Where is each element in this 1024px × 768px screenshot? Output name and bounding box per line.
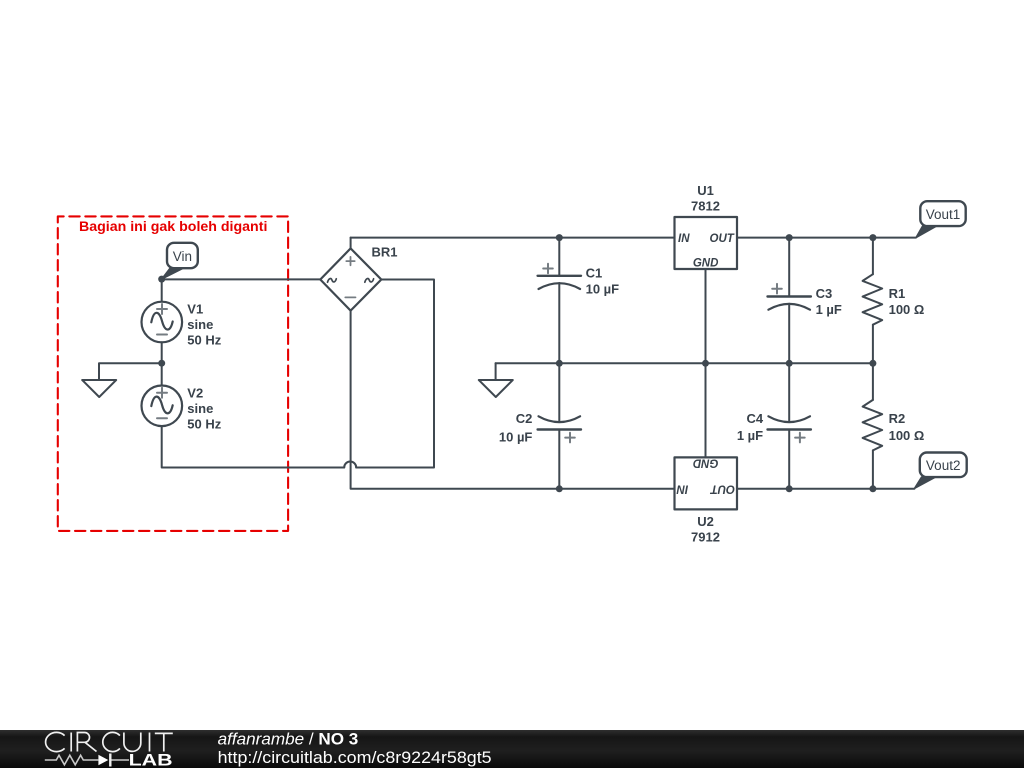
regulator U2 7912 bbox=[675, 457, 738, 510]
C2 labels bbox=[499, 411, 533, 444]
resistor R1 bbox=[863, 238, 883, 364]
svg-text:OUT: OUT bbox=[710, 233, 735, 245]
voltage source V2 bbox=[142, 386, 183, 427]
wire top rail left segment bbox=[351, 237, 675, 239]
wire U2 GND up to mid rail bbox=[705, 363, 707, 457]
svg-text:100 Ω: 100 Ω bbox=[889, 428, 925, 443]
capacitor C3 bbox=[768, 238, 811, 364]
R1 labels bbox=[889, 286, 925, 317]
R2 labels bbox=[889, 411, 925, 443]
node C1 bottom / mid rail bbox=[556, 360, 563, 367]
CircuitLab logo resistor-diode symbol bbox=[45, 754, 129, 767]
svg-text:50 Hz: 50 Hz bbox=[187, 416, 221, 431]
node Vin junction bbox=[158, 276, 165, 283]
svg-text:C4: C4 bbox=[746, 411, 763, 426]
regulator U1 7812 bbox=[675, 217, 738, 270]
svg-text:BR1: BR1 bbox=[372, 245, 398, 260]
wire V2 bottom to AC2 of BR1 (with hop) bbox=[162, 280, 434, 468]
node C2 bottom bbox=[556, 485, 563, 492]
net flag Vout2 bbox=[914, 453, 966, 489]
svg-text:Vin: Vin bbox=[173, 249, 192, 264]
C4 labels bbox=[737, 411, 764, 443]
svg-text:R2: R2 bbox=[889, 411, 906, 426]
node V1/V2 junction bbox=[158, 360, 165, 367]
svg-text:V1: V1 bbox=[187, 302, 203, 317]
voltage source V1 bbox=[142, 302, 183, 343]
svg-text:50 Hz: 50 Hz bbox=[187, 333, 221, 348]
svg-text:C1: C1 bbox=[586, 266, 603, 281]
node R1 bottom / mid rail bbox=[869, 360, 876, 367]
svg-text:Bagian ini gak boleh diganti: Bagian ini gak boleh diganti bbox=[79, 219, 267, 235]
wire BR1 - down to bottom rail bbox=[351, 311, 675, 489]
svg-text:100 Ω: 100 Ω bbox=[889, 302, 925, 317]
node R1 top bbox=[869, 234, 876, 241]
V1 labels bbox=[187, 302, 221, 348]
ground (left) bbox=[82, 380, 116, 397]
svg-text:LAB: LAB bbox=[129, 751, 173, 768]
svg-text:C2: C2 bbox=[516, 411, 533, 426]
svg-text:IN: IN bbox=[676, 482, 688, 494]
node R2 bottom bbox=[869, 485, 876, 492]
svg-text:U1: U1 bbox=[697, 183, 714, 198]
svg-text:R1: R1 bbox=[889, 286, 906, 301]
svg-text:GND: GND bbox=[693, 258, 719, 270]
svg-text:V2: V2 bbox=[187, 385, 203, 400]
svg-text:C3: C3 bbox=[816, 286, 833, 301]
svg-text:Vout1: Vout1 bbox=[926, 207, 961, 222]
svg-text:1 µF: 1 µF bbox=[816, 302, 842, 317]
U1 labels bbox=[691, 183, 720, 214]
capacitor C1 bbox=[538, 238, 581, 364]
resistor R2 bbox=[863, 363, 883, 489]
svg-text:1 µF: 1 µF bbox=[737, 428, 763, 443]
svg-text:sine: sine bbox=[187, 317, 213, 332]
svg-text:GND: GND bbox=[693, 457, 719, 469]
V2 labels bbox=[187, 385, 221, 431]
svg-text:affanrambe / NO 3: affanrambe / NO 3 bbox=[218, 731, 359, 749]
wire Vin node down to V1 bbox=[161, 279, 163, 302]
red dashed region box bbox=[58, 216, 288, 531]
wire V1 bottom to junction node bbox=[161, 342, 163, 363]
svg-text:IN: IN bbox=[678, 233, 690, 245]
wire Vin node to BR1 left vertex bbox=[162, 278, 321, 280]
U2 labels bbox=[691, 514, 720, 545]
wire top rail right segment bbox=[737, 237, 916, 239]
CircuitLab logo CIRCUIT bbox=[46, 732, 173, 751]
bridge rectifier BR1 bbox=[320, 248, 381, 310]
svg-text:http://circuitlab.com/c8r9224r: http://circuitlab.com/c8r9224r58gt5 bbox=[218, 749, 492, 767]
node C4 bottom bbox=[786, 485, 793, 492]
svg-text:10 µF: 10 µF bbox=[586, 282, 620, 297]
node C3 bottom / mid rail bbox=[786, 360, 793, 367]
wire junction to ground stem bbox=[99, 363, 162, 380]
net flag Vout1 bbox=[916, 201, 966, 238]
capacitor C4 bbox=[768, 363, 811, 489]
svg-text:10 µF: 10 µF bbox=[499, 429, 533, 444]
wire U1 GND down to mid rail bbox=[705, 269, 707, 363]
svg-text:7912: 7912 bbox=[691, 530, 720, 545]
net flag Vin bbox=[162, 243, 198, 279]
svg-text:OUT: OUT bbox=[710, 482, 735, 494]
node U1/U2 gnd mid rail bbox=[702, 360, 709, 367]
wire BR1 + up to top rail corner bbox=[350, 238, 352, 249]
node C1 top bbox=[556, 234, 563, 241]
mid ground rail wire bbox=[496, 362, 873, 364]
ground (mid) bbox=[479, 363, 513, 397]
C3 labels bbox=[816, 286, 842, 317]
svg-text:7812: 7812 bbox=[691, 199, 720, 214]
svg-text:Vout2: Vout2 bbox=[926, 458, 961, 473]
node C3 top bbox=[786, 234, 793, 241]
C1 labels bbox=[586, 266, 620, 297]
svg-text:sine: sine bbox=[187, 401, 213, 416]
svg-text:U2: U2 bbox=[697, 514, 714, 529]
wire junction down to V2 bbox=[161, 363, 163, 385]
wire bottom rail right segment bbox=[737, 488, 914, 490]
capacitor C2 bbox=[538, 363, 581, 489]
